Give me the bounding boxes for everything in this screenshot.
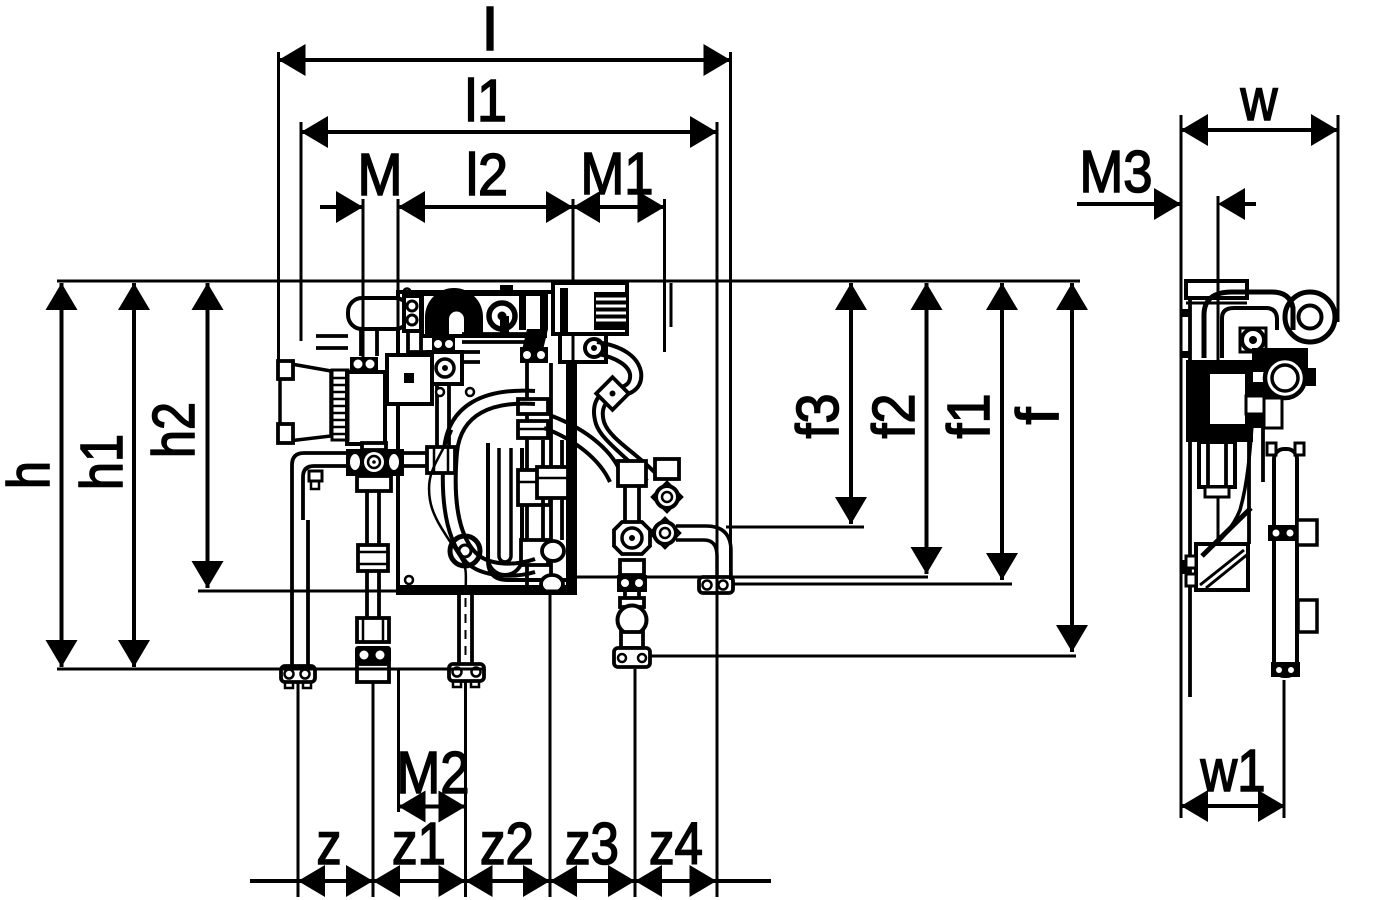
valve flange [350,357,378,372]
pump housing + pump [422,294,545,336]
rail [1188,283,1192,697]
small fittings under circle [1246,396,1264,414]
dim l [279,58,731,62]
U pipe inside plate [488,448,522,575]
pump blob housing [1252,348,1308,372]
svg-text:h: h [0,461,62,489]
svg-text:M2: M2 [397,740,470,806]
bottom box [1196,544,1248,590]
pipe4 column [618,461,646,486]
U-bend [425,288,483,334]
svg-text:z1: z1 [392,811,446,877]
long pipe [1274,449,1297,676]
dim M3 [1077,202,1181,206]
capillary [429,430,466,592]
svg-text:w: w [1240,67,1278,133]
hose loop ring [1285,292,1335,342]
big circle pump [1265,358,1305,398]
right vertical dims f3 f2 f1 f [849,283,853,524]
svg-text:M3: M3 [1080,139,1153,205]
z chain at y=881 [250,879,771,883]
pipe1 with elbow [292,453,346,667]
feed pipe from valve to coupler [435,384,439,447]
dim M2 [399,805,466,809]
fitting circle [1240,328,1266,352]
pipe4 lower [620,560,644,575]
svg-text:z3: z3 [565,811,619,877]
motor2 block [387,355,432,404]
dark bracket [522,329,548,350]
dim l1 [301,130,717,134]
svg-text:l: l [483,0,497,63]
pipe A stub [359,328,363,356]
svg-text:z: z [317,811,342,877]
chain M / l2 / M1 at y=207 [320,205,363,209]
dim w [1181,128,1338,132]
svg-text:f1: f1 [936,394,1002,439]
bellows [332,370,348,440]
FRONT VIEW MACHINE [278,283,733,688]
top reference line [57,280,1080,283]
bottom reference lines [198,590,575,593]
tube block to box [1247,428,1251,544]
SIDE VIEW MACHINE [1182,281,1335,697]
svg-text:f2: f2 [861,394,927,439]
top elbow pipe [1204,292,1293,358]
motor block with grille [553,283,627,334]
big curved pipe right to pipe4 [552,416,622,476]
heat exchanger C loop [443,391,535,576]
pipe2 [365,491,369,545]
coupler on cross valve right port [404,451,427,455]
side tabs [1297,520,1317,545]
horizontal pipe valve to column [462,332,538,336]
inlet pipe to horn area [316,334,348,338]
pipe1 flange [281,666,315,682]
svg-text:h2: h2 [141,402,207,458]
sub block cylinder [1199,442,1235,487]
svg-text:z4: z4 [649,811,703,877]
top bracket [1186,281,1247,298]
left flange band + valve [432,336,455,352]
black block [1186,360,1253,442]
inner HX frame [488,443,571,580]
right column: coupler + two valve circles [655,459,679,479]
svg-text:f: f [1005,407,1071,425]
svg-text:h1: h1 [69,434,135,490]
S hose to octagon valve [597,342,658,476]
valve under motor [560,334,606,362]
muffler top-left [348,298,409,329]
left vertical dims h h1 h2 [60,283,64,667]
svg-text:M1: M1 [581,141,654,207]
pipe3 below plate [457,594,461,664]
svg-text:f3: f3 [785,394,851,439]
svg-text:l2: l2 [466,142,508,208]
svg-text:w1: w1 [1200,738,1266,804]
pipe motor2 to plate [409,350,480,354]
cross valve [346,449,404,476]
svg-text:z2: z2 [480,811,534,877]
middle pipe column [525,363,529,592]
S cable [1204,412,1253,554]
valve body [347,372,385,444]
dim w1 [1181,804,1285,808]
horn [280,362,331,442]
svg-text:M: M [358,142,403,208]
drain tap on pipe1 elbow [309,471,322,481]
outlet pipe with elbow down [676,526,731,578]
backplate [398,292,575,593]
svg-text:l1: l1 [465,68,507,134]
